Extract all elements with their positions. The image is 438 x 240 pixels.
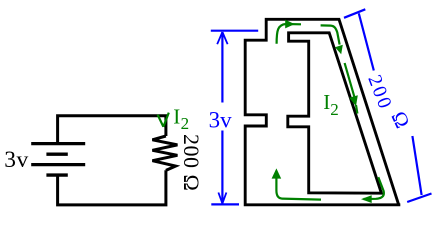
dimension 3v: vertical arrow line upper segment [221,32,223,103]
dimension 200Ω: lower line segment [412,136,421,195]
dimension 3v: top extension tick (blue) [211,30,258,32]
current arrow: head pointing left on bottom wire [361,195,372,203]
svg-text:3v: 3v [209,108,233,133]
dimension 200Ω: top tick (blue) [344,9,365,17]
svg-text:I: I [173,104,180,128]
current arrow: head pointing up inside battery channel [272,168,282,178]
current arrow: bottom of resistor turning left (green) [364,177,384,199]
resistor R1 zigzag [152,136,177,170]
dimension 3v: upper arrowhead [217,32,227,44]
svg-text:2: 2 [330,100,339,119]
svg-text:Ω: Ω [386,107,414,131]
current arrow: head at top of resistor channel [335,45,343,54]
battery B1 long plate 2 [31,163,85,166]
svg-text:200 Ω: 200 Ω [179,134,204,191]
current arrow: bottom wire turning up into battery (green) [276,171,321,200]
battery B1 short plate 2 [46,173,67,176]
battery B1 short plate 1 [46,152,67,155]
dimension 3v: vertical arrow line lower segment [221,131,223,204]
right figure: outer boundary of circuit band [245,19,400,205]
current arrow I2 (left circuit, green V arrow) [158,113,169,127]
current arrow: top-left curved arrow out of battery (green) [277,24,301,44]
dimension 200Ω: bottom tick (blue) [407,194,431,203]
wire: left circuit bottom wire with battery lead and resistor lead [58,170,166,205]
battery B1 long plate 1 [31,142,85,145]
current arrow: mid resistor channel (green) [345,63,358,114]
svg-text:3v: 3v [4,147,28,173]
svg-text:2: 2 [181,114,190,133]
current arrow: top-left arrowhead [285,20,294,29]
right figure: inner boundary of circuit band [288,33,382,193]
dimension 3v: bottom extension tick (blue) [211,203,239,205]
current arrow: head mid resistor channel [349,95,358,106]
dimension 3v: lower arrowhead [218,193,226,204]
dimension 200Ω: upper line segment [359,13,374,70]
current arrow: top wire into resistor (green) [321,25,340,44]
wire: left circuit top wire with corners [58,116,166,143]
